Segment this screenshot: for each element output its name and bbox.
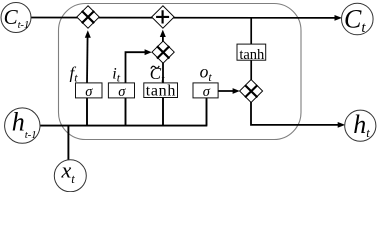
LSTM cell boundary (rounded rectangle) [59,4,302,140]
node h_t circle [345,110,376,141]
wire: o gate sigma output right to output multiply gate [218,90,236,92]
svg-text:σ: σ [118,84,126,100]
wire: cell state line C_{t-1} to C_t [31,17,336,19]
sigma box f gate [76,83,103,98]
wire: branch up to f sigma box [86,98,88,126]
wire: h_{t-1} input line [40,125,208,127]
sigma box o gate [193,83,218,98]
sigma box i gate [108,83,134,98]
arrowhead into add gate bottom [160,30,166,37]
arrowhead into output multiply gate left [233,88,240,94]
wire: branch up to candidate tanh box [162,98,164,126]
wire: x_t input up to h line [67,126,69,161]
wire: candidate tanh output up to candidate multiply gate [162,62,164,83]
wire: candidate multiply gate up to add gate [162,33,164,42]
candidate multiply gate diamond [152,41,174,63]
wire: f gate sigma output up to forget multiply gate [86,34,89,84]
wire: output tanh box down to output multiply gate [250,60,252,81]
node h_{t-1} circle [5,108,40,143]
svg-text:tanh: tanh [239,47,265,63]
svg-text:σ: σ [85,84,93,100]
arrowhead into candidate multiply gate left [145,49,152,55]
node C_t circle [342,3,374,35]
svg-text:σ: σ [203,84,211,100]
output tanh box [237,44,266,60]
output multiply gate diamond [240,80,263,103]
arrowhead into node h_t [338,122,346,128]
wire: branch up to o sigma box [206,98,208,126]
forget multiply gate diamond [77,6,100,29]
arrowhead into forget multiply gate bottom [85,30,91,38]
wire: branch up to i sigma box [125,98,127,126]
add gate diamond [152,6,175,29]
arrowhead into node C_t [335,15,343,21]
wire: i gate sigma output up and right to candidate multiply gate [126,52,148,83]
wire: output multiply gate down and right to h_t [251,102,341,125]
wire: branch from C line down to tanh box [250,18,252,45]
tanh box candidate [144,83,178,98]
node C_{t-1} circle [1,3,31,33]
node x_t circle [54,160,86,192]
